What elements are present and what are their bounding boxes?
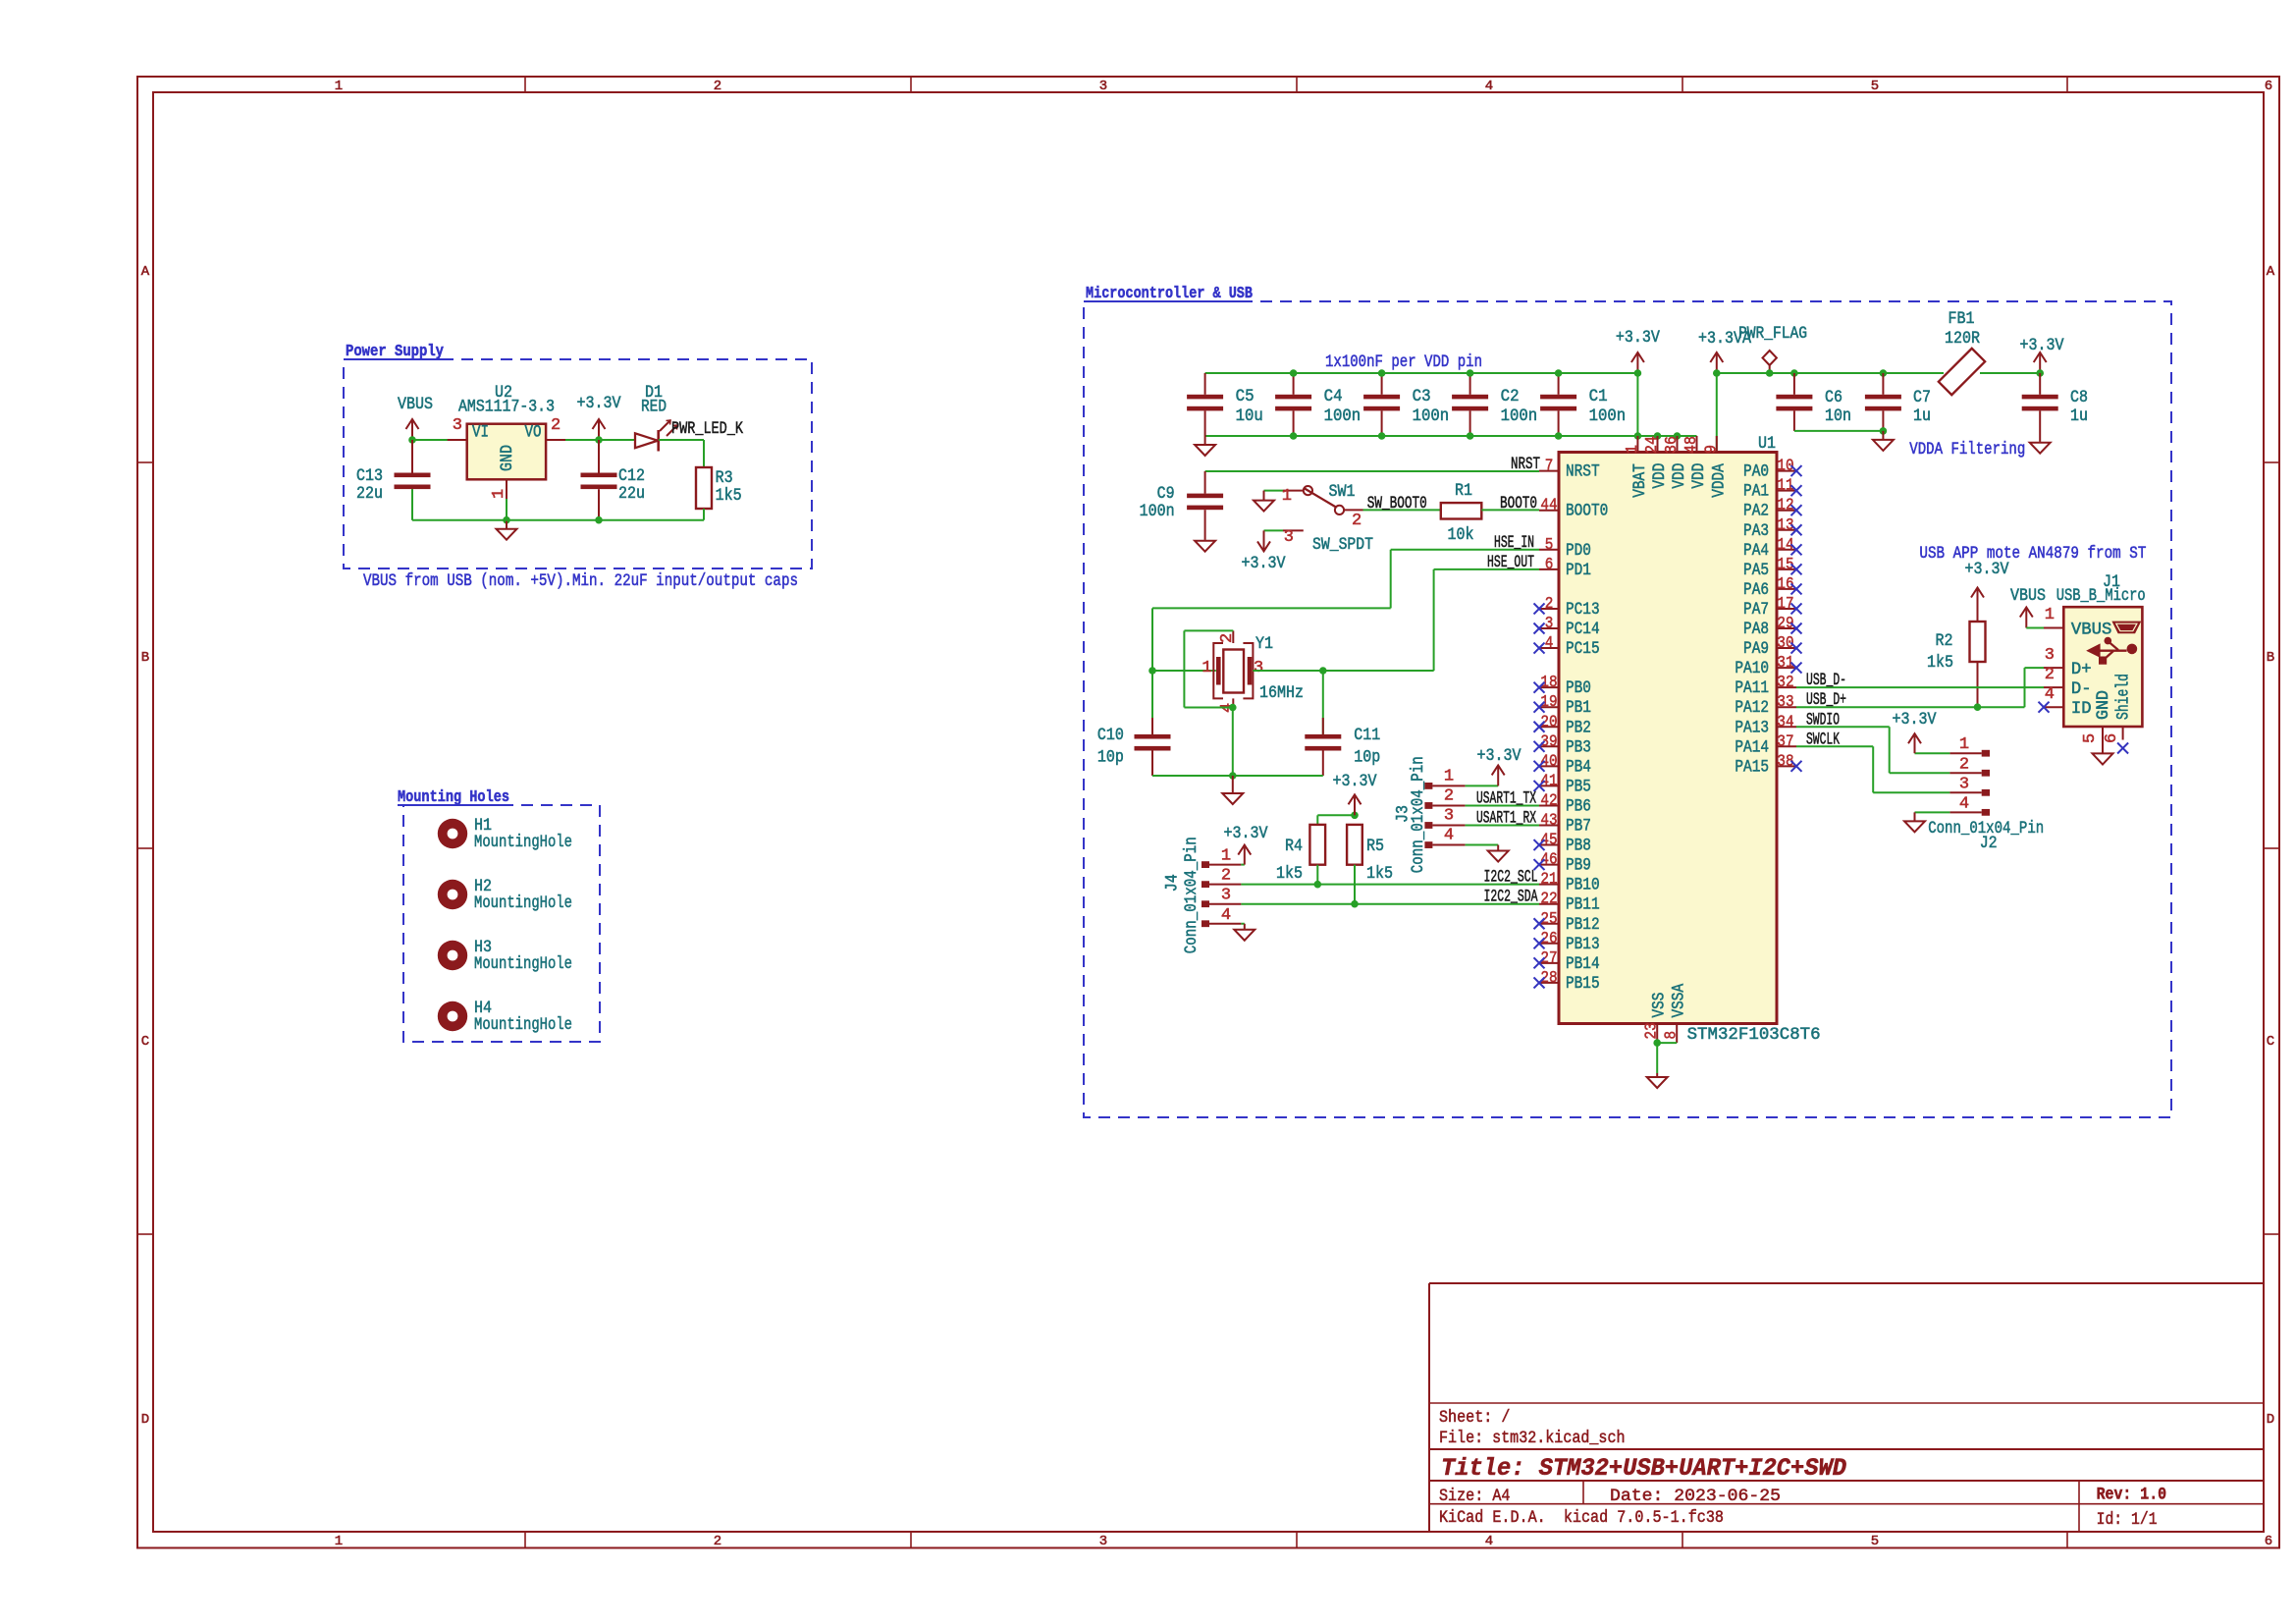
svg-text:R4: R4 [1285,838,1303,856]
svg-text:1: 1 [335,79,343,94]
svg-text:B: B [2267,650,2274,666]
wire FB1 to C8 [1980,372,2040,374]
svg-text:VBAT: VBAT [1631,463,1650,498]
wire SWCLK [1796,745,1873,747]
U1 pin 26 PB13 [1539,943,1559,945]
svg-text:+3.3V: +3.3V [2020,337,2065,355]
svg-text:RED: RED [641,399,667,417]
junction R5/SDA [1351,900,1359,908]
junction C2 top [1467,369,1474,377]
svg-text:VBUS: VBUS [2010,587,2046,606]
U1 pin 43 PB7 [1539,825,1559,827]
junction at VBUS/C13 [408,436,416,444]
svg-text:100n: 100n [1589,407,1627,426]
wire J4 pin4 to gnd [1241,923,1244,925]
power symbol VBUS [411,421,413,440]
svg-text:AMS1117-3.3: AMS1117-3.3 [458,399,555,417]
gnd at SW1 pin 1 [1263,491,1265,501]
svg-text:PB11: PB11 [1566,896,1600,915]
svg-text:5: 5 [1545,536,1554,555]
U1 pin 3 PC14 [1539,627,1559,629]
U1 pin 6 PD1 [1539,568,1559,570]
svg-text:D+: D+ [2071,661,2092,679]
svg-text:100n: 100n [1413,407,1450,426]
svg-text:PA3: PA3 [1743,522,1769,541]
mounting hole H3 [438,941,467,970]
wire R1 to BOOT0 [1481,509,1539,511]
wire USART1_TX [1466,804,1539,806]
wire J2 pin1 to +3.3V [1915,752,1950,754]
svg-text:PA5: PA5 [1743,562,1769,580]
wire VDDA drop [1716,373,1718,457]
svg-text:PB5: PB5 [1566,778,1591,796]
U1 pin 42 PB6 [1539,804,1559,806]
svg-text:C: C [141,1034,149,1050]
svg-text:2: 2 [2045,666,2055,684]
power supply ground rail [412,519,704,521]
svg-text:22u: 22u [356,485,383,504]
U1 pin 10 PA0 [1777,470,1796,472]
svg-text:Rev: 1.0: Rev: 1.0 [2097,1486,2167,1505]
wire USB_D+ (PA12 to J1 D+) [1796,706,2025,708]
resistor R3 [696,467,712,509]
U1 pin 12 PA2 [1777,510,1796,512]
svg-text:PB3: PB3 [1566,738,1591,757]
svg-text:Date: 2023-06-25: Date: 2023-06-25 [1610,1487,1781,1506]
U1 pin 48 VDD [1696,436,1698,453]
svg-text:Conn_01x04_Pin: Conn_01x04_Pin [1183,837,1201,953]
svg-text:PA1: PA1 [1743,483,1769,502]
svg-text:Y1: Y1 [1255,635,1273,654]
svg-text:USB_D+: USB_D+ [1806,691,1846,710]
U1 pin 32 PA11 [1777,686,1796,688]
U1 pin 23 VSS [1656,1024,1658,1044]
svg-text:PC15: PC15 [1566,640,1600,659]
svg-text:PA0: PA0 [1743,463,1769,482]
svg-text:VDDA Filtering: VDDA Filtering [1909,441,2025,460]
junction C7 bottom [1880,427,1888,435]
svg-text:PB1: PB1 [1566,699,1591,718]
U1 pin 21 PB10 [1539,884,1559,886]
svg-text:GND: GND [499,445,517,471]
svg-text:PB14: PB14 [1566,955,1600,974]
J2 pin 1 [1982,750,1990,757]
U1 pin 31 PA10 [1777,667,1796,669]
junction at C12 bottom [595,516,603,524]
J1 usb receptacle icon [2113,622,2141,632]
svg-text:1: 1 [490,489,508,499]
svg-text:4: 4 [1545,634,1554,653]
wire crystal gnd rail [1152,775,1323,777]
resistor R4 [1309,825,1325,865]
svg-text:USB APP mote AN4879 from ST: USB APP mote AN4879 from ST [1919,545,2146,564]
svg-text:2: 2 [1959,755,1969,774]
mounting hole H4 [438,1001,467,1031]
power symbol VBUS at J1 [2025,610,2027,628]
svg-text:1: 1 [1959,735,1969,754]
group box Mounting Holes [403,805,600,1042]
U1 pin 18 PB0 [1539,686,1559,688]
svg-text:PA9: PA9 [1743,640,1769,659]
J1 pin 2 D- [2044,686,2063,688]
svg-text:4: 4 [1485,1534,1493,1549]
svg-text:1u: 1u [2070,407,2088,426]
J4 pin 4 [1201,920,1209,927]
svg-text:PA2: PA2 [1743,503,1769,521]
svg-text:42: 42 [1540,791,1557,810]
U1 pin 13 PA3 [1777,529,1796,531]
crystal Y1 [1223,650,1244,693]
J4 pin 3 [1201,900,1209,907]
svg-text:3: 3 [1545,615,1554,633]
svg-text:1k5: 1k5 [1927,654,1953,673]
svg-text:PA7: PA7 [1743,601,1769,620]
SW1 pin 1 [1283,490,1304,492]
U1 pin 44 BOOT0 [1539,510,1559,512]
svg-text:VDDA: VDDA [1710,463,1729,498]
svg-text:1u: 1u [1913,407,1931,426]
junction VSS [1653,1039,1661,1047]
junction R5 top [1351,812,1359,820]
junction crystal pin3 node [1319,667,1327,675]
svg-text:23: 23 [1643,1022,1662,1039]
J4 pin 1 [1201,861,1209,868]
svg-text:STM32F103C8T6: STM32F103C8T6 [1687,1026,1821,1045]
ferrite bead FB1 [1939,349,1985,395]
svg-text:PB4: PB4 [1566,758,1591,777]
frame column ticks [524,77,526,92]
svg-text:1k5: 1k5 [1366,865,1393,884]
U1 pin 41 PB5 [1539,785,1559,786]
U2 pin 3 [448,439,467,441]
svg-text:USB_D-: USB_D- [1806,672,1846,690]
U1 pin 14 PA4 [1777,549,1796,551]
svg-text:VBUS: VBUS [398,396,433,414]
no-connect at J1 ID [2039,702,2050,713]
svg-text:4: 4 [1444,827,1454,845]
svg-text:U1: U1 [1758,435,1776,454]
J1 pin 1 VBUS [2044,627,2063,629]
wire I2C2_SDA [1241,903,1539,905]
svg-text:C12: C12 [618,467,645,486]
junction VBAT rail [1634,369,1642,377]
svg-text:VSSA: VSSA [1671,983,1689,1017]
U1 pin 46 PB9 [1539,864,1559,866]
wire VSS gnd drop [1656,1043,1658,1073]
svg-text:2: 2 [714,1534,721,1549]
svg-text:3: 3 [1254,659,1263,677]
svg-text:5: 5 [2081,733,2100,743]
svg-text:J2: J2 [1980,835,1998,853]
svg-text:6: 6 [1545,556,1554,574]
svg-text:2: 2 [1444,786,1454,805]
U1 pin 19 PB1 [1539,706,1559,708]
wire R4-R5 tops [1317,814,1355,816]
svg-text:2: 2 [551,416,561,435]
wire SWDIO [1796,726,1890,728]
U1 pin 1 VBAT [1636,436,1638,453]
svg-text:PC14: PC14 [1566,621,1600,639]
svg-text:1: 1 [1282,487,1292,506]
svg-text:ID: ID [2071,700,2092,719]
wire to C11 [1322,671,1324,734]
svg-text:BOOT0: BOOT0 [1500,495,1537,514]
svg-text:SWCLK: SWCLK [1806,731,1840,749]
group box Microcontroller & USB [1084,301,2171,1117]
no-connect at J1 Shield [2117,743,2128,754]
power symbol +3.3V at R2 [1977,590,1979,609]
crystal case pin4 wire [1232,698,1234,707]
capacitor C3 [1381,373,1383,395]
wire crystal gnd drop [1232,708,1234,777]
U1 pin 2 PC13 [1539,608,1559,610]
junction at +3.3V/C12 [595,436,603,444]
svg-text:+3.3V: +3.3V [577,395,622,413]
svg-text:R2: R2 [1936,632,1953,651]
J3 pin 1 [1424,783,1432,789]
svg-text:9: 9 [1702,445,1721,454]
svg-text:SWDIO: SWDIO [1806,711,1840,730]
U1 pin 25 PB12 [1539,923,1559,925]
power symbol +3.3V (C8) [2039,354,2041,373]
gnd at J3 pin4 [1497,845,1499,851]
junction C3 bottom [1378,432,1386,440]
svg-text:Conn_01x04_Pin: Conn_01x04_Pin [1410,756,1428,873]
svg-text:USART1_RX: USART1_RX [1476,810,1536,829]
svg-text:7: 7 [1545,458,1554,476]
gnd below J1 [2093,753,2113,764]
svg-text:I2C2_SDA: I2C2_SDA [1484,889,1538,907]
J1 pin 3 D+ [2044,667,2063,669]
junction R2/USB_D+ [1974,703,1982,711]
wire J4 pin1 to +3.3V [1241,864,1244,866]
resistor R1 [1441,503,1482,518]
svg-text:44: 44 [1540,497,1557,515]
wire R3 to gnd rail [703,509,705,520]
svg-text:1: 1 [1221,847,1231,866]
svg-text:+3.3V: +3.3V [1893,711,1938,730]
svg-text:22: 22 [1540,891,1557,909]
svg-text:PC13: PC13 [1566,601,1600,620]
svg-text:VBUS from USB (nom. +5V).Min.: VBUS from USB (nom. +5V).Min. 22uF input… [363,572,798,591]
svg-text:FB1: FB1 [1949,310,1975,329]
J1 usb trident icon [2094,650,2127,652]
junction crystal pin4 [1229,704,1237,712]
power symbol +3.3V (VDD rail) [1636,354,1638,373]
wire VSS-VSSA join [1657,1042,1677,1044]
svg-text:Id: 1/1: Id: 1/1 [2097,1510,2158,1530]
svg-text:PA12: PA12 [1735,699,1769,718]
svg-text:10k: 10k [1448,526,1474,545]
wire NRST [1205,470,1539,472]
svg-text:PB0: PB0 [1566,679,1591,698]
J1 pin 5 GND [2102,727,2104,753]
U1 pin 16 PA6 [1777,588,1796,590]
svg-text:GND: GND [2095,690,2113,720]
svg-text:+3.3V: +3.3V [1477,747,1522,766]
svg-text:BOOT0: BOOT0 [1566,503,1608,521]
U1 pin 45 PB8 [1539,844,1559,846]
svg-text:PB2: PB2 [1566,719,1591,737]
svg-text:PB7: PB7 [1566,818,1591,837]
U1 pin 39 PB3 [1539,745,1559,747]
U1 pin 15 PA5 [1777,568,1796,570]
svg-text:VO: VO [525,424,542,443]
svg-text:C3: C3 [1413,388,1431,406]
svg-text:100n: 100n [1324,407,1362,426]
svg-text:3: 3 [2045,646,2055,665]
svg-text:File: stm32.kicad_sch: File: stm32.kicad_sch [1439,1429,1626,1448]
svg-text:100n: 100n [1501,407,1538,426]
wire crystal pin3 [1253,670,1322,672]
regulator U2 [467,424,546,480]
LED D1 [635,433,658,448]
junction VDD pins [1634,432,1642,440]
svg-text:PD0: PD0 [1566,542,1591,561]
svg-text:HSE_IN: HSE_IN [1494,534,1534,553]
svg-text:KiCad E.D.A. kicad 7.0.5-1.fc: KiCad E.D.A. kicad 7.0.5-1.fc38 [1439,1508,1724,1528]
svg-text:VBUS: VBUS [2071,622,2112,640]
U1 pin 22 PB11 [1539,903,1559,905]
U1 pin 7 NRST [1539,470,1559,472]
svg-text:VI: VI [472,424,489,443]
svg-text:B: B [141,650,149,666]
svg-text:D: D [141,1412,149,1428]
svg-text:10n: 10n [1825,407,1851,426]
U2 pin 2 [546,439,565,441]
title block outline [1429,1282,2264,1284]
capacitor C2 [1469,373,1471,395]
power flag PWR_FLAG [1769,365,1771,373]
J3 pin 2 [1424,802,1432,809]
svg-text:C8: C8 [2070,389,2088,407]
junction C2 bottom [1467,432,1474,440]
capacitor C9 [1204,471,1206,494]
svg-text:8: 8 [1663,1031,1682,1040]
wire HSE_IN [1391,549,1539,551]
svg-text:10p: 10p [1097,749,1124,768]
svg-text:1: 1 [2045,606,2055,624]
svg-text:+3.3V: +3.3V [1333,773,1378,791]
J4 pin 2 [1201,881,1209,888]
svg-text:C11: C11 [1354,727,1380,745]
connector J1 USB_B_Micro body [2063,607,2142,727]
svg-text:24: 24 [1643,436,1662,454]
svg-text:C13: C13 [356,467,383,486]
svg-text:2: 2 [1545,595,1554,614]
U1 pin 5 PD0 [1539,549,1559,551]
U1 pin 27 PB14 [1539,962,1559,964]
wire C6-C7 bottoms [1794,430,1884,432]
svg-text:4: 4 [1485,79,1493,94]
power symbol +3.3V down at SW1 pin 3 [1263,530,1265,549]
svg-text:VDD: VDD [1651,463,1670,489]
svg-text:SW1: SW1 [1329,483,1356,502]
svg-text:5: 5 [1871,1534,1879,1549]
power symbol +3.3V (power supply) [598,421,600,440]
resistor R2 [1977,609,1979,623]
mounting hole H2 [438,880,467,909]
capacitor C13 [411,440,413,473]
svg-text:PB15: PB15 [1566,975,1600,994]
junction VDDA rail [1713,369,1721,377]
svg-text:C1: C1 [1589,388,1608,406]
microcontroller U1 body [1559,453,1777,1024]
svg-text:J4: J4 [1164,874,1183,892]
capacitor C6 [1790,369,1798,377]
wire crystal pin1 [1152,670,1216,672]
svg-text:Title: STM32+USB+UART+I2C+SWD: Title: STM32+USB+UART+I2C+SWD [1441,1454,1846,1483]
svg-text:32: 32 [1777,674,1793,692]
svg-text:PA4: PA4 [1743,542,1769,561]
U1 pin 34 PA13 [1777,726,1796,728]
J3 pin 4 [1424,841,1432,848]
wire +3.3V rail (decoupling row) [1205,372,1638,374]
gnd at J2 pin4 [1914,812,1916,821]
svg-text:VDD: VDD [1671,463,1689,489]
svg-text:PA14: PA14 [1735,738,1769,757]
svg-text:PB13: PB13 [1566,936,1600,954]
power symbol +3.3V at J3 [1497,767,1499,785]
svg-text:3: 3 [1221,887,1231,905]
U1 pin 28 PB15 [1539,982,1559,984]
svg-text:34: 34 [1777,713,1793,731]
capacitor C5 [1204,373,1206,395]
gnd below C8 [2039,442,2041,443]
svg-text:2: 2 [1352,512,1362,530]
J1 pin 6 Shield [2122,727,2124,740]
svg-text:C10: C10 [1097,727,1124,745]
wire VBUS to U2 VI [412,439,448,441]
svg-text:SW_SPDT: SW_SPDT [1312,536,1373,555]
svg-text:1k5: 1k5 [716,487,742,506]
svg-text:3: 3 [1444,807,1454,826]
SW1 pin 3 [1283,529,1304,531]
junction at U2 GND [503,516,510,524]
wire USB_D- (PA11 to J1 D-) [1796,686,2044,688]
crystal case pin2 wire [1232,630,1234,643]
svg-text:1: 1 [1624,445,1642,454]
U1 pin 11 PA1 [1777,490,1796,492]
gnd below U1 [1656,1073,1658,1077]
svg-text:PA11: PA11 [1735,679,1769,698]
svg-text:C9: C9 [1157,485,1175,504]
svg-text:37: 37 [1777,732,1793,751]
wire R2 bottom [1977,662,1979,707]
svg-text:PB10: PB10 [1566,877,1600,895]
svg-text:D: D [2267,1412,2274,1428]
svg-text:C: C [2267,1034,2274,1050]
svg-text:HSE_OUT: HSE_OUT [1487,554,1534,572]
junction C1 top [1555,369,1563,377]
svg-text:1x100nF per VDD pin: 1x100nF per VDD pin [1325,353,1482,372]
svg-text:PB6: PB6 [1566,797,1591,816]
svg-text:PA13: PA13 [1735,719,1769,737]
U1 pin 29 PA8 [1777,627,1796,629]
svg-text:100n: 100n [1140,503,1175,521]
svg-text:120R: 120R [1945,330,1980,349]
svg-text:PD1: PD1 [1566,562,1591,580]
svg-text:D-: D- [2071,680,2092,699]
capacitor C12 [598,440,600,473]
svg-text:USART1_TX: USART1_TX [1476,789,1536,808]
svg-text:PWR_LED_K: PWR_LED_K [671,420,744,439]
svg-text:I2C2_SCL: I2C2_SCL [1484,869,1538,888]
svg-text:4: 4 [1221,906,1231,925]
svg-text:2: 2 [1221,867,1231,886]
svg-text:6: 6 [2265,1534,2272,1549]
svg-text:C6: C6 [1825,389,1842,407]
